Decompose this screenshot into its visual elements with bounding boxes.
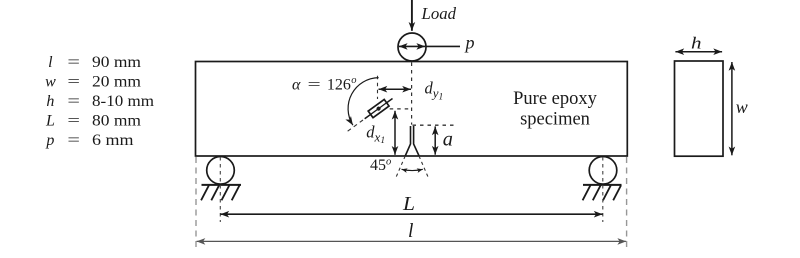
parameter list row L (45, 113, 142, 130)
left support roller (207, 157, 235, 185)
svg-text:a: a (443, 126, 453, 150)
svg-text:45o: 45o (370, 156, 391, 173)
notch flare dashed extensions (396, 156, 429, 178)
svg-text:w: w (736, 97, 748, 117)
gauge vertical dashed reference (377, 76, 379, 99)
svg-text:126: 126 (327, 76, 351, 93)
notch depth dashed line (413, 124, 457, 126)
p leader line (426, 45, 460, 47)
parameter list row w (45, 74, 142, 91)
parameter list row p (45, 132, 134, 149)
svg-text:o: o (351, 75, 356, 86)
right support centerline dashed (602, 157, 604, 222)
parameter list row h (46, 93, 154, 110)
svg-text:h: h (691, 33, 702, 52)
svg-text:=: = (67, 54, 80, 71)
alpha angle arc (348, 78, 379, 126)
dimension l line (197, 240, 627, 242)
svg-text:90 mm: 90 mm (92, 54, 142, 71)
45 degree angle arrow (402, 169, 423, 170)
crack centerline dashed (411, 63, 413, 125)
top roller (398, 33, 426, 61)
left support centerline dashed (219, 157, 221, 222)
right support hatching (583, 185, 621, 200)
left support ground (202, 184, 242, 186)
svg-text:l: l (408, 221, 413, 242)
svg-text:Pure epoxy: Pure epoxy (513, 89, 597, 109)
gauge axis dashed extension (347, 120, 363, 132)
left support hatching (201, 185, 239, 200)
svg-text:20 mm: 20 mm (92, 74, 142, 91)
svg-text:p: p (464, 33, 475, 53)
load arrow (411, 0, 413, 31)
svg-text:=: = (67, 132, 80, 149)
svg-text:p: p (45, 132, 54, 149)
svg-text:80 mm: 80 mm (92, 113, 142, 130)
svg-text:=: = (67, 113, 80, 130)
p arrow (399, 45, 425, 47)
svg-text:=: = (67, 74, 80, 91)
w dimension arrow (731, 62, 733, 155)
svg-text:h: h (46, 93, 54, 110)
left edge extension dashed (195, 157, 197, 248)
svg-text:L: L (45, 113, 55, 130)
svg-text:specimen: specimen (520, 109, 590, 129)
d_x1 arrow (394, 111, 396, 155)
right edge extension dashed (626, 157, 628, 248)
svg-text:=: = (67, 93, 80, 110)
right support ground (583, 184, 622, 186)
svg-text:dy1: dy1 (425, 79, 444, 103)
cross-section rectangle (675, 61, 724, 156)
right support roller (589, 157, 617, 185)
svg-text:=: = (308, 76, 321, 93)
d_y1 arrow (379, 88, 412, 90)
dimension L line (220, 213, 602, 215)
beam specimen outline (196, 62, 628, 157)
svg-text:l: l (48, 54, 53, 71)
notch slot and V (405, 126, 419, 156)
svg-text:6 mm: 6 mm (92, 132, 134, 149)
parameter list row l (48, 54, 141, 71)
svg-text:α: α (292, 76, 301, 93)
strain gauge (362, 95, 395, 122)
svg-text:w: w (45, 74, 56, 91)
h dimension arrow (675, 51, 722, 53)
svg-text:8-10 mm: 8-10 mm (92, 93, 155, 110)
dimension a arrow (434, 126, 436, 154)
svg-text:Load: Load (421, 4, 457, 23)
svg-text:dx1: dx1 (366, 122, 385, 146)
gauge horizontal dashed reference (390, 108, 412, 110)
svg-text:L: L (402, 194, 415, 215)
